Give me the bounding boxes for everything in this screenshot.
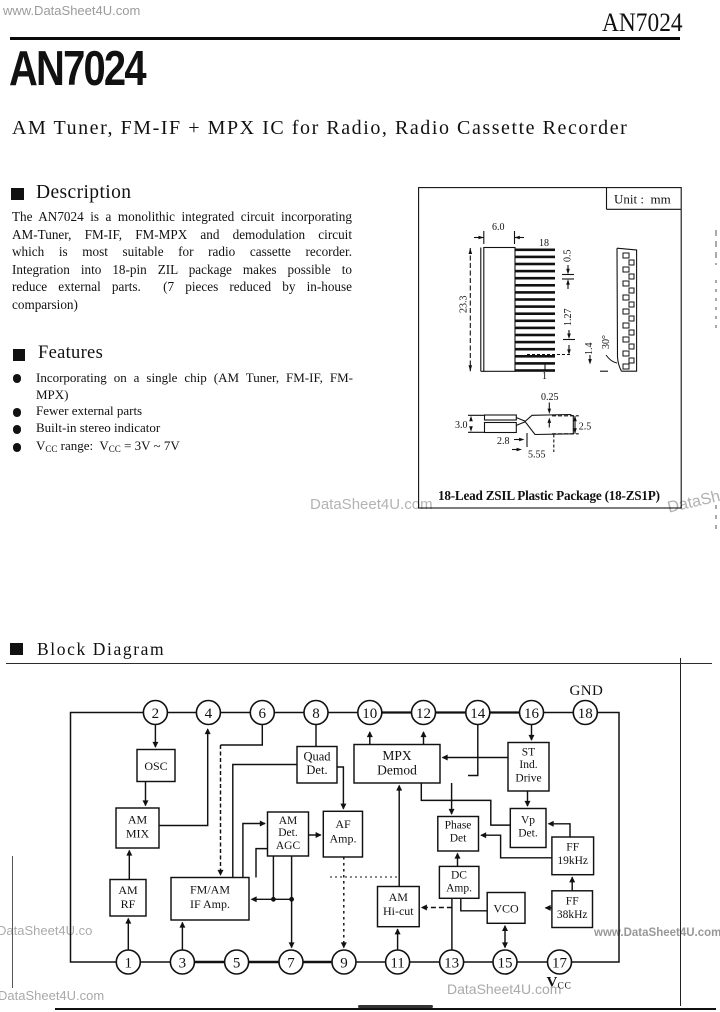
svg-text:7: 7 bbox=[287, 955, 295, 971]
svg-text:1: 1 bbox=[125, 955, 133, 971]
svg-text:5: 5 bbox=[233, 955, 241, 971]
svg-text:18: 18 bbox=[578, 706, 593, 722]
svg-text:Unit : mm: Unit : mm bbox=[614, 192, 671, 207]
svg-text:FF: FF bbox=[566, 842, 579, 854]
svg-text:23.3: 23.3 bbox=[459, 296, 470, 314]
svg-text:Quad: Quad bbox=[303, 750, 331, 764]
svg-text:18-Lead ZSIL Plastic Package (: 18-Lead ZSIL Plastic Package (18-ZS1P) bbox=[438, 488, 660, 503]
svg-text:MIX: MIX bbox=[126, 827, 150, 841]
svg-text:0.5: 0.5 bbox=[563, 250, 574, 263]
svg-text:Det: Det bbox=[450, 833, 467, 845]
svg-text:AF: AF bbox=[335, 817, 351, 831]
svg-text:3: 3 bbox=[179, 955, 187, 971]
svg-text:0.25: 0.25 bbox=[541, 392, 559, 403]
svg-text:V: V bbox=[547, 975, 558, 991]
svg-text:CC: CC bbox=[558, 982, 572, 992]
svg-text:8: 8 bbox=[312, 706, 320, 722]
svg-text:16: 16 bbox=[524, 706, 540, 722]
svg-text:Ind.: Ind. bbox=[519, 759, 537, 771]
svg-text:Amp.: Amp. bbox=[330, 832, 357, 846]
svg-text:DC: DC bbox=[451, 870, 467, 882]
svg-text:Hi-cut: Hi-cut bbox=[383, 904, 414, 918]
svg-text:4: 4 bbox=[205, 706, 213, 722]
svg-text:MPX: MPX bbox=[382, 748, 412, 763]
svg-text:30°: 30° bbox=[601, 335, 612, 349]
svg-text:Amp.: Amp. bbox=[446, 883, 472, 895]
svg-text:15: 15 bbox=[498, 955, 513, 971]
svg-text:18: 18 bbox=[539, 238, 549, 249]
svg-text:2.8: 2.8 bbox=[497, 436, 510, 447]
svg-text:Det.: Det. bbox=[518, 828, 538, 840]
svg-text:FF: FF bbox=[566, 896, 579, 908]
svg-text:12: 12 bbox=[416, 706, 431, 722]
svg-text:11: 11 bbox=[390, 955, 404, 971]
svg-text:Vp: Vp bbox=[521, 815, 535, 827]
svg-text:IF Amp.: IF Amp. bbox=[190, 897, 230, 911]
svg-text:17: 17 bbox=[552, 955, 568, 971]
svg-text:Drive: Drive bbox=[515, 773, 541, 785]
svg-text:14: 14 bbox=[470, 706, 486, 722]
svg-text:9: 9 bbox=[340, 955, 348, 971]
svg-text:1.4: 1.4 bbox=[584, 343, 595, 356]
svg-text:AM: AM bbox=[118, 883, 138, 897]
svg-text:2.5: 2.5 bbox=[579, 422, 592, 433]
svg-text:Det.: Det. bbox=[306, 763, 327, 777]
svg-text:AM: AM bbox=[389, 890, 409, 904]
svg-text:AGC: AGC bbox=[276, 840, 301, 852]
svg-text:RF: RF bbox=[121, 897, 136, 911]
svg-text:19kHz: 19kHz bbox=[557, 855, 588, 867]
svg-text:6: 6 bbox=[259, 706, 267, 722]
svg-text:1.27: 1.27 bbox=[563, 309, 574, 327]
svg-text:38kHz: 38kHz bbox=[557, 909, 588, 921]
svg-text:Phase: Phase bbox=[445, 820, 472, 832]
svg-text:ST: ST bbox=[522, 747, 535, 759]
svg-text:6.0: 6.0 bbox=[492, 222, 505, 233]
svg-text:2: 2 bbox=[152, 706, 160, 722]
svg-text:5.55: 5.55 bbox=[528, 450, 546, 461]
svg-text:Demod: Demod bbox=[377, 763, 417, 778]
svg-text:GND: GND bbox=[570, 683, 604, 699]
svg-text:1: 1 bbox=[542, 371, 547, 382]
svg-text:13: 13 bbox=[444, 955, 459, 971]
svg-text:Det.: Det. bbox=[278, 827, 298, 839]
svg-text:AM: AM bbox=[279, 815, 298, 827]
svg-text:VCO: VCO bbox=[493, 902, 519, 916]
svg-text:3.0: 3.0 bbox=[455, 420, 468, 431]
svg-text:AM: AM bbox=[128, 813, 148, 827]
svg-text:FM/AM: FM/AM bbox=[190, 883, 230, 897]
svg-text:OSC: OSC bbox=[144, 759, 167, 773]
svg-text:10: 10 bbox=[362, 706, 377, 722]
